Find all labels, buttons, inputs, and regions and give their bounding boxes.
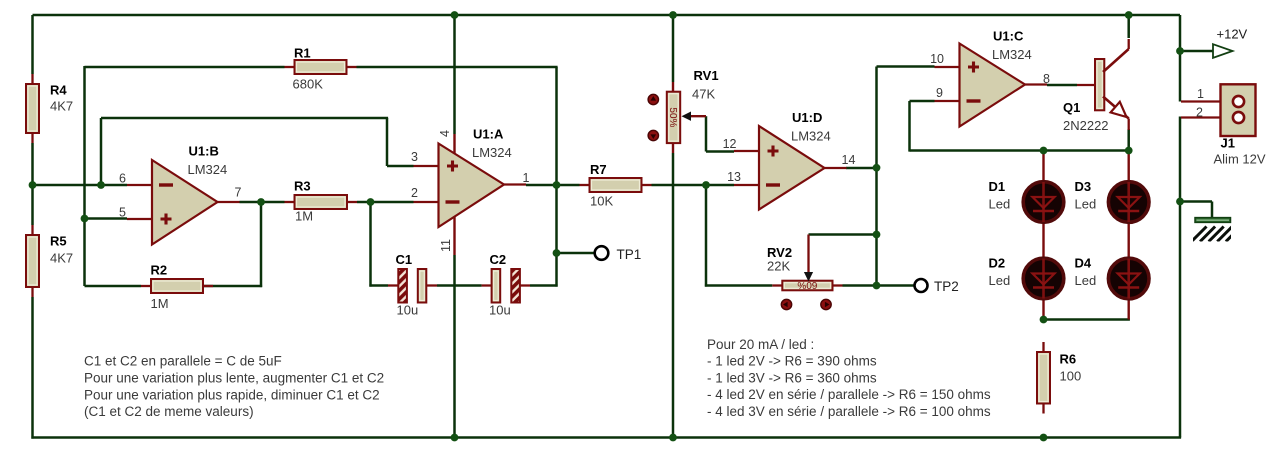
wire mid bus upper — [672, 15, 675, 82]
svg-text:Pour 20 mA / led :: Pour 20 mA / led : — [707, 337, 814, 352]
wire vertical x387 — [386, 118, 389, 166]
svg-text:10u: 10u — [489, 303, 511, 318]
svg-text:R6: R6 — [1060, 352, 1077, 367]
wire vertical x261 — [260, 202, 263, 287]
svg-text:Led: Led — [989, 273, 1011, 288]
svg-text:Led: Led — [1075, 197, 1097, 212]
LED column D3/D4 pins — [1127, 151, 1129, 320]
op-amp U1:B — [127, 144, 240, 245]
svg-text:5: 5 — [119, 206, 126, 220]
svg-text:6: 6 — [119, 172, 126, 186]
svg-text:U1:B: U1:B — [189, 144, 219, 159]
wire R2 left — [85, 285, 142, 288]
svg-text:Pour une variation plus rapide: Pour une variation plus rapide, diminuer… — [84, 387, 380, 402]
wire out7 — [240, 201, 262, 204]
junction bottom bus / pin11 — [451, 434, 459, 442]
wire left bus upper — [31, 15, 34, 74]
svg-text:R7: R7 — [590, 162, 607, 177]
LED D1 — [989, 179, 1064, 222]
pin 11 stub — [453, 217, 455, 256]
wire vertical x876 (out14/pin10) — [875, 67, 878, 286]
junction ground — [1176, 198, 1184, 206]
wire C1 to C2 — [437, 284, 482, 287]
transistor Q1 2N2222 — [1063, 39, 1129, 133]
wire R7 to pin13 — [652, 184, 735, 187]
LED D2 — [989, 256, 1064, 299]
wire bottom ground bus — [31, 436, 1181, 439]
op-amp U1:C — [935, 29, 1048, 127]
wire out1 to R7 — [526, 184, 580, 187]
svg-text:Led: Led — [1075, 273, 1097, 288]
svg-text:9: 9 — [936, 86, 943, 100]
svg-text:U1:A: U1:A — [473, 127, 504, 142]
junction bottom bus / R6 — [1040, 434, 1048, 442]
wire into pin3 — [387, 165, 414, 168]
junction pin5 — [81, 215, 89, 223]
junction TP1 — [553, 249, 561, 257]
junction D1 anode — [1040, 147, 1048, 155]
svg-text:- 4 led 2V en série / parallel: - 4 led 2V en série / parallele -> R6 = … — [707, 387, 991, 402]
wire to pin10 — [877, 65, 935, 68]
junction out1 / R7 — [553, 181, 561, 189]
junction +12V arrow — [1176, 47, 1184, 55]
svg-text:14: 14 — [842, 153, 856, 167]
wire mid bus lower — [672, 153, 675, 438]
resistor R4 — [26, 74, 73, 143]
svg-text:1: 1 — [1197, 87, 1204, 101]
op-amp U1:A — [414, 127, 527, 228]
capacitor C2 — [482, 252, 530, 318]
svg-text:- 4 led 3V en série / parallel: - 4 led 3V en série / parallele -> R6 = … — [707, 404, 991, 419]
svg-text:C1: C1 — [396, 252, 413, 267]
junction pin6 / half supply — [97, 181, 105, 189]
svg-text:C1 et C2 en parallele = C de 5: C1 et C2 en parallele = C de 5uF — [84, 354, 282, 369]
svg-text:10K: 10K — [590, 194, 613, 209]
wire RV2 wiper to out14 — [809, 233, 877, 236]
svg-text:R5: R5 — [50, 234, 67, 249]
junction top bus / Q1 collector — [1125, 11, 1133, 19]
svg-text:680K: 680K — [293, 77, 324, 92]
wire ground drop — [1211, 202, 1214, 219]
junction pin2 — [367, 198, 375, 206]
pin 4 stub — [453, 134, 455, 154]
junction LED cathodes / R6 — [1040, 316, 1048, 324]
junction out14 — [873, 164, 881, 172]
wire +12V branch — [1180, 50, 1213, 53]
svg-text:U1:C: U1:C — [993, 29, 1024, 44]
RV1 adjust buttons — [648, 94, 658, 104]
svg-text:4: 4 — [438, 130, 452, 137]
wire emitter rail y150 — [910, 149, 1129, 152]
resistor R5 — [26, 225, 73, 297]
junction D3 anode / emitter — [1125, 147, 1133, 155]
wire LED bottom rail — [1044, 318, 1130, 321]
svg-text:100: 100 — [1060, 369, 1082, 384]
svg-text:J1: J1 — [1221, 136, 1235, 151]
LED column D1/D2 pins — [1042, 151, 1044, 320]
svg-text:D3: D3 — [1075, 179, 1092, 194]
test point TP2 — [915, 279, 928, 292]
wire top +12V bus — [33, 14, 1181, 17]
svg-text:(C1 et C2 de meme valeurs): (C1 et C2 de meme valeurs) — [84, 404, 254, 419]
svg-text:LM324: LM324 — [472, 145, 512, 160]
svg-text:22K: 22K — [767, 259, 790, 274]
svg-text:4K7: 4K7 — [50, 99, 73, 114]
svg-text:LM324: LM324 — [791, 129, 831, 144]
svg-text:C2: C2 — [490, 252, 507, 267]
wire RV2 to TP2 — [843, 284, 915, 287]
wire RV1 wiper vertical — [705, 116, 708, 151]
svg-text:12: 12 — [723, 137, 737, 151]
svg-text:D2: D2 — [989, 256, 1006, 271]
svg-text:- 1 led 3V -> R6 = 360 ohms: - 1 led 3V -> R6 = 360 ohms — [707, 370, 877, 385]
svg-text:2: 2 — [411, 186, 418, 200]
wire R2 right — [203, 285, 262, 288]
wire left bus mid — [31, 143, 34, 225]
wire to TP1 — [557, 252, 595, 255]
LED D4 — [1075, 256, 1149, 299]
wire vertical x909 — [908, 101, 911, 152]
LED D3 — [1075, 179, 1149, 222]
svg-text:D4: D4 — [1075, 256, 1092, 271]
wire pin9 — [910, 100, 935, 103]
junction out7 — [257, 198, 265, 206]
svg-text:D1: D1 — [989, 179, 1006, 194]
resistor R2 — [141, 263, 213, 312]
wire R1 right — [357, 66, 558, 69]
svg-text:2N2222: 2N2222 — [1063, 118, 1109, 133]
wire emitter down — [1127, 129, 1130, 151]
capacitor C1 — [388, 252, 437, 318]
wire to C1 — [369, 284, 388, 287]
potentiometer RV2 22K — [767, 235, 843, 291]
junction top bus / pin4 — [451, 11, 459, 19]
wire pin5 of U1:B — [85, 217, 128, 220]
svg-text:- 1 led 2V -> R6 = 390 ohms: - 1 led 2V -> R6 = 390 ohms — [707, 354, 877, 369]
junction pin13 / RV2 — [702, 181, 710, 189]
svg-text:Q1: Q1 — [1063, 100, 1080, 115]
connector J1 — [1181, 84, 1266, 166]
svg-text:11: 11 — [439, 239, 453, 252]
junction bottom bus / RV1 — [669, 434, 677, 442]
svg-text:10u: 10u — [397, 303, 419, 318]
svg-text:1M: 1M — [151, 296, 169, 311]
wire right bus upper — [1179, 15, 1182, 102]
junction left bus / pin6 — [29, 181, 37, 189]
svg-text:R1: R1 — [294, 46, 311, 61]
svg-text:60%: 60% — [797, 279, 817, 290]
wire left bus lower — [31, 297, 34, 439]
svg-text:+12V: +12V — [1217, 27, 1248, 42]
svg-text:4K7: 4K7 — [50, 251, 73, 266]
RV2 adjust buttons — [781, 299, 791, 309]
wire x706 down to RV2 — [705, 185, 708, 287]
wire out14 to junction — [846, 167, 877, 170]
wire R1 left — [85, 66, 285, 69]
svg-text:3: 3 — [411, 150, 418, 164]
svg-text:LM324: LM324 — [992, 47, 1032, 62]
wire R3 to pin2 — [357, 201, 414, 204]
wire to pin12 — [706, 150, 734, 153]
wire ground branch — [1180, 200, 1212, 203]
wire pin4 power — [453, 15, 456, 134]
svg-text:LM324: LM324 — [188, 162, 228, 177]
resistor R7 — [580, 162, 652, 209]
svg-text:10: 10 — [930, 52, 944, 66]
svg-text:Pour une variation plus lente,: Pour une variation plus lente, augmenter… — [84, 370, 384, 385]
svg-text:1M: 1M — [295, 209, 313, 224]
svg-text:TP2: TP2 — [934, 279, 959, 294]
junction top bus / RV1 — [669, 11, 677, 19]
svg-text:Led: Led — [989, 197, 1011, 212]
wire C2 to feedback — [530, 284, 558, 287]
svg-text:7: 7 — [235, 186, 242, 200]
resistor R6 — [1037, 342, 1081, 414]
test point TP1 — [595, 246, 609, 260]
wire vertical x101 — [100, 118, 103, 185]
wire to R3 — [261, 201, 285, 204]
svg-text:2: 2 — [1196, 106, 1203, 120]
svg-text:TP1: TP1 — [617, 247, 642, 262]
wire pin11 ground — [453, 255, 456, 438]
svg-text:50%: 50% — [667, 107, 678, 127]
svg-text:R3: R3 — [294, 179, 311, 194]
wire half-supply to pin3 — [101, 117, 388, 120]
wire vertical x370 to C1 — [369, 202, 372, 287]
potentiometer RV1 47K — [667, 68, 719, 153]
wire to RV2 left — [705, 284, 772, 287]
svg-text:47K: 47K — [692, 87, 715, 102]
junction TP2 — [873, 282, 881, 290]
svg-text:8: 8 — [1043, 72, 1050, 86]
resistor R3 — [285, 179, 358, 224]
svg-text:13: 13 — [727, 170, 741, 184]
wire right bus lower — [1179, 117, 1182, 438]
svg-text:R2: R2 — [151, 263, 168, 278]
wire pin6 of U1:B — [33, 184, 128, 187]
svg-text:RV1: RV1 — [694, 68, 719, 83]
+12V power terminal — [1213, 27, 1248, 58]
op-amp U1:D — [734, 110, 847, 210]
junction RV2 wiper — [873, 231, 881, 239]
wire vertical x84 (R1/pin5/R2) — [83, 66, 86, 286]
wire out8 to Q1 base — [1047, 84, 1077, 87]
svg-text:U1:D: U1:D — [792, 110, 822, 125]
ground symbol — [1192, 218, 1241, 242]
svg-text:R4: R4 — [50, 83, 67, 98]
wire vertical x556 (out1 feedback) — [555, 67, 558, 287]
svg-text:1: 1 — [523, 171, 530, 185]
svg-text:Alim 12V: Alim 12V — [1214, 152, 1266, 167]
resistor R1 — [285, 46, 357, 92]
wire collector to +12V — [1127, 15, 1130, 38]
